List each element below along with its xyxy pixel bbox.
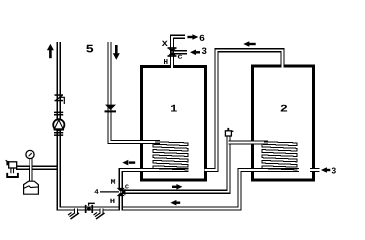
- tank 1: [142, 67, 206, 181]
- wire valve H-port drop: [119, 196, 123, 211]
- arrow left (cold inlet 3 right): [321, 167, 330, 173]
- arrow left (coil return to valve): [122, 160, 135, 166]
- check valve on pipe 5: [105, 105, 117, 113]
- wire cold water stub tank2 right: [310, 168, 320, 172]
- arrow right (C-port flow): [172, 184, 182, 190]
- arrow up (pipe 1 out): [47, 44, 54, 58]
- wire tank1 top fitting drop and hot supply corner: [172, 37, 185, 68]
- arrow left (transfer pipe top): [243, 41, 255, 47]
- pump P1: [53, 119, 64, 130]
- wire gauge stem: [29, 159, 32, 168]
- lever line to label 4: [100, 191, 119, 193]
- label M at valve: [111, 179, 115, 184]
- arrow right (to 6): [187, 34, 198, 40]
- wire tank2 top to tank1 bottom transfer pipe: [205, 50, 283, 170]
- wire drain stem 1: [74, 209, 78, 214]
- wire riser tee into tank2 coil top: [229, 140, 269, 144]
- drain symbol 1: [68, 213, 79, 220]
- label 6: [200, 35, 205, 41]
- label H at valve: [110, 199, 114, 203]
- flange below pump: [54, 132, 63, 136]
- wire cold inlet stub at fitting: [174, 50, 187, 54]
- label X: [162, 41, 168, 46]
- safety valve SV: [6, 160, 18, 177]
- tank 2: [253, 66, 314, 180]
- coil heat exchanger tank 2: [262, 142, 298, 170]
- arrow left (bottom return): [170, 200, 180, 206]
- check valve on pipe 1: [55, 94, 65, 104]
- wire boiler supply pipe 5 into tank1 coil top: [110, 42, 161, 142]
- flange above pump: [54, 112, 63, 116]
- wire expansion-vessel stem: [29, 168, 33, 182]
- wire drain stem 2: [100, 209, 104, 214]
- wire main return: pump riser, bottom run, right riser, tank2 coil bottom: [59, 42, 299, 209]
- label 3 top: [202, 48, 207, 55]
- label 5: [86, 45, 93, 53]
- label 4: [95, 189, 99, 193]
- label C at valve: [125, 185, 129, 189]
- air vent on riser: [225, 128, 233, 136]
- wire tank1 coil bottom to valve M-port: [121, 170, 189, 188]
- label H at fitting: [164, 59, 168, 64]
- mixing valve at tank1 top (X/H/C): [168, 47, 177, 57]
- label 1: [171, 105, 177, 112]
- label 3 right: [332, 168, 336, 174]
- expansion vessel: [24, 181, 39, 194]
- drain valve on bottom pipe: [85, 203, 95, 213]
- arrow left (from 3 top): [190, 50, 200, 56]
- arrow down (pipe 5 in): [113, 45, 120, 60]
- three-way valve V4 (M/C/H): [117, 188, 126, 196]
- coil heat exchanger tank 1: [153, 142, 189, 170]
- wire valve C-port to riser to air-vent: [122, 133, 229, 192]
- label C at fitting: [178, 55, 183, 59]
- wire safety-branch horizontal: [16, 166, 59, 170]
- pressure gauge PG: [26, 150, 34, 158]
- drain symbol 2: [94, 213, 105, 220]
- label 2: [281, 105, 287, 112]
